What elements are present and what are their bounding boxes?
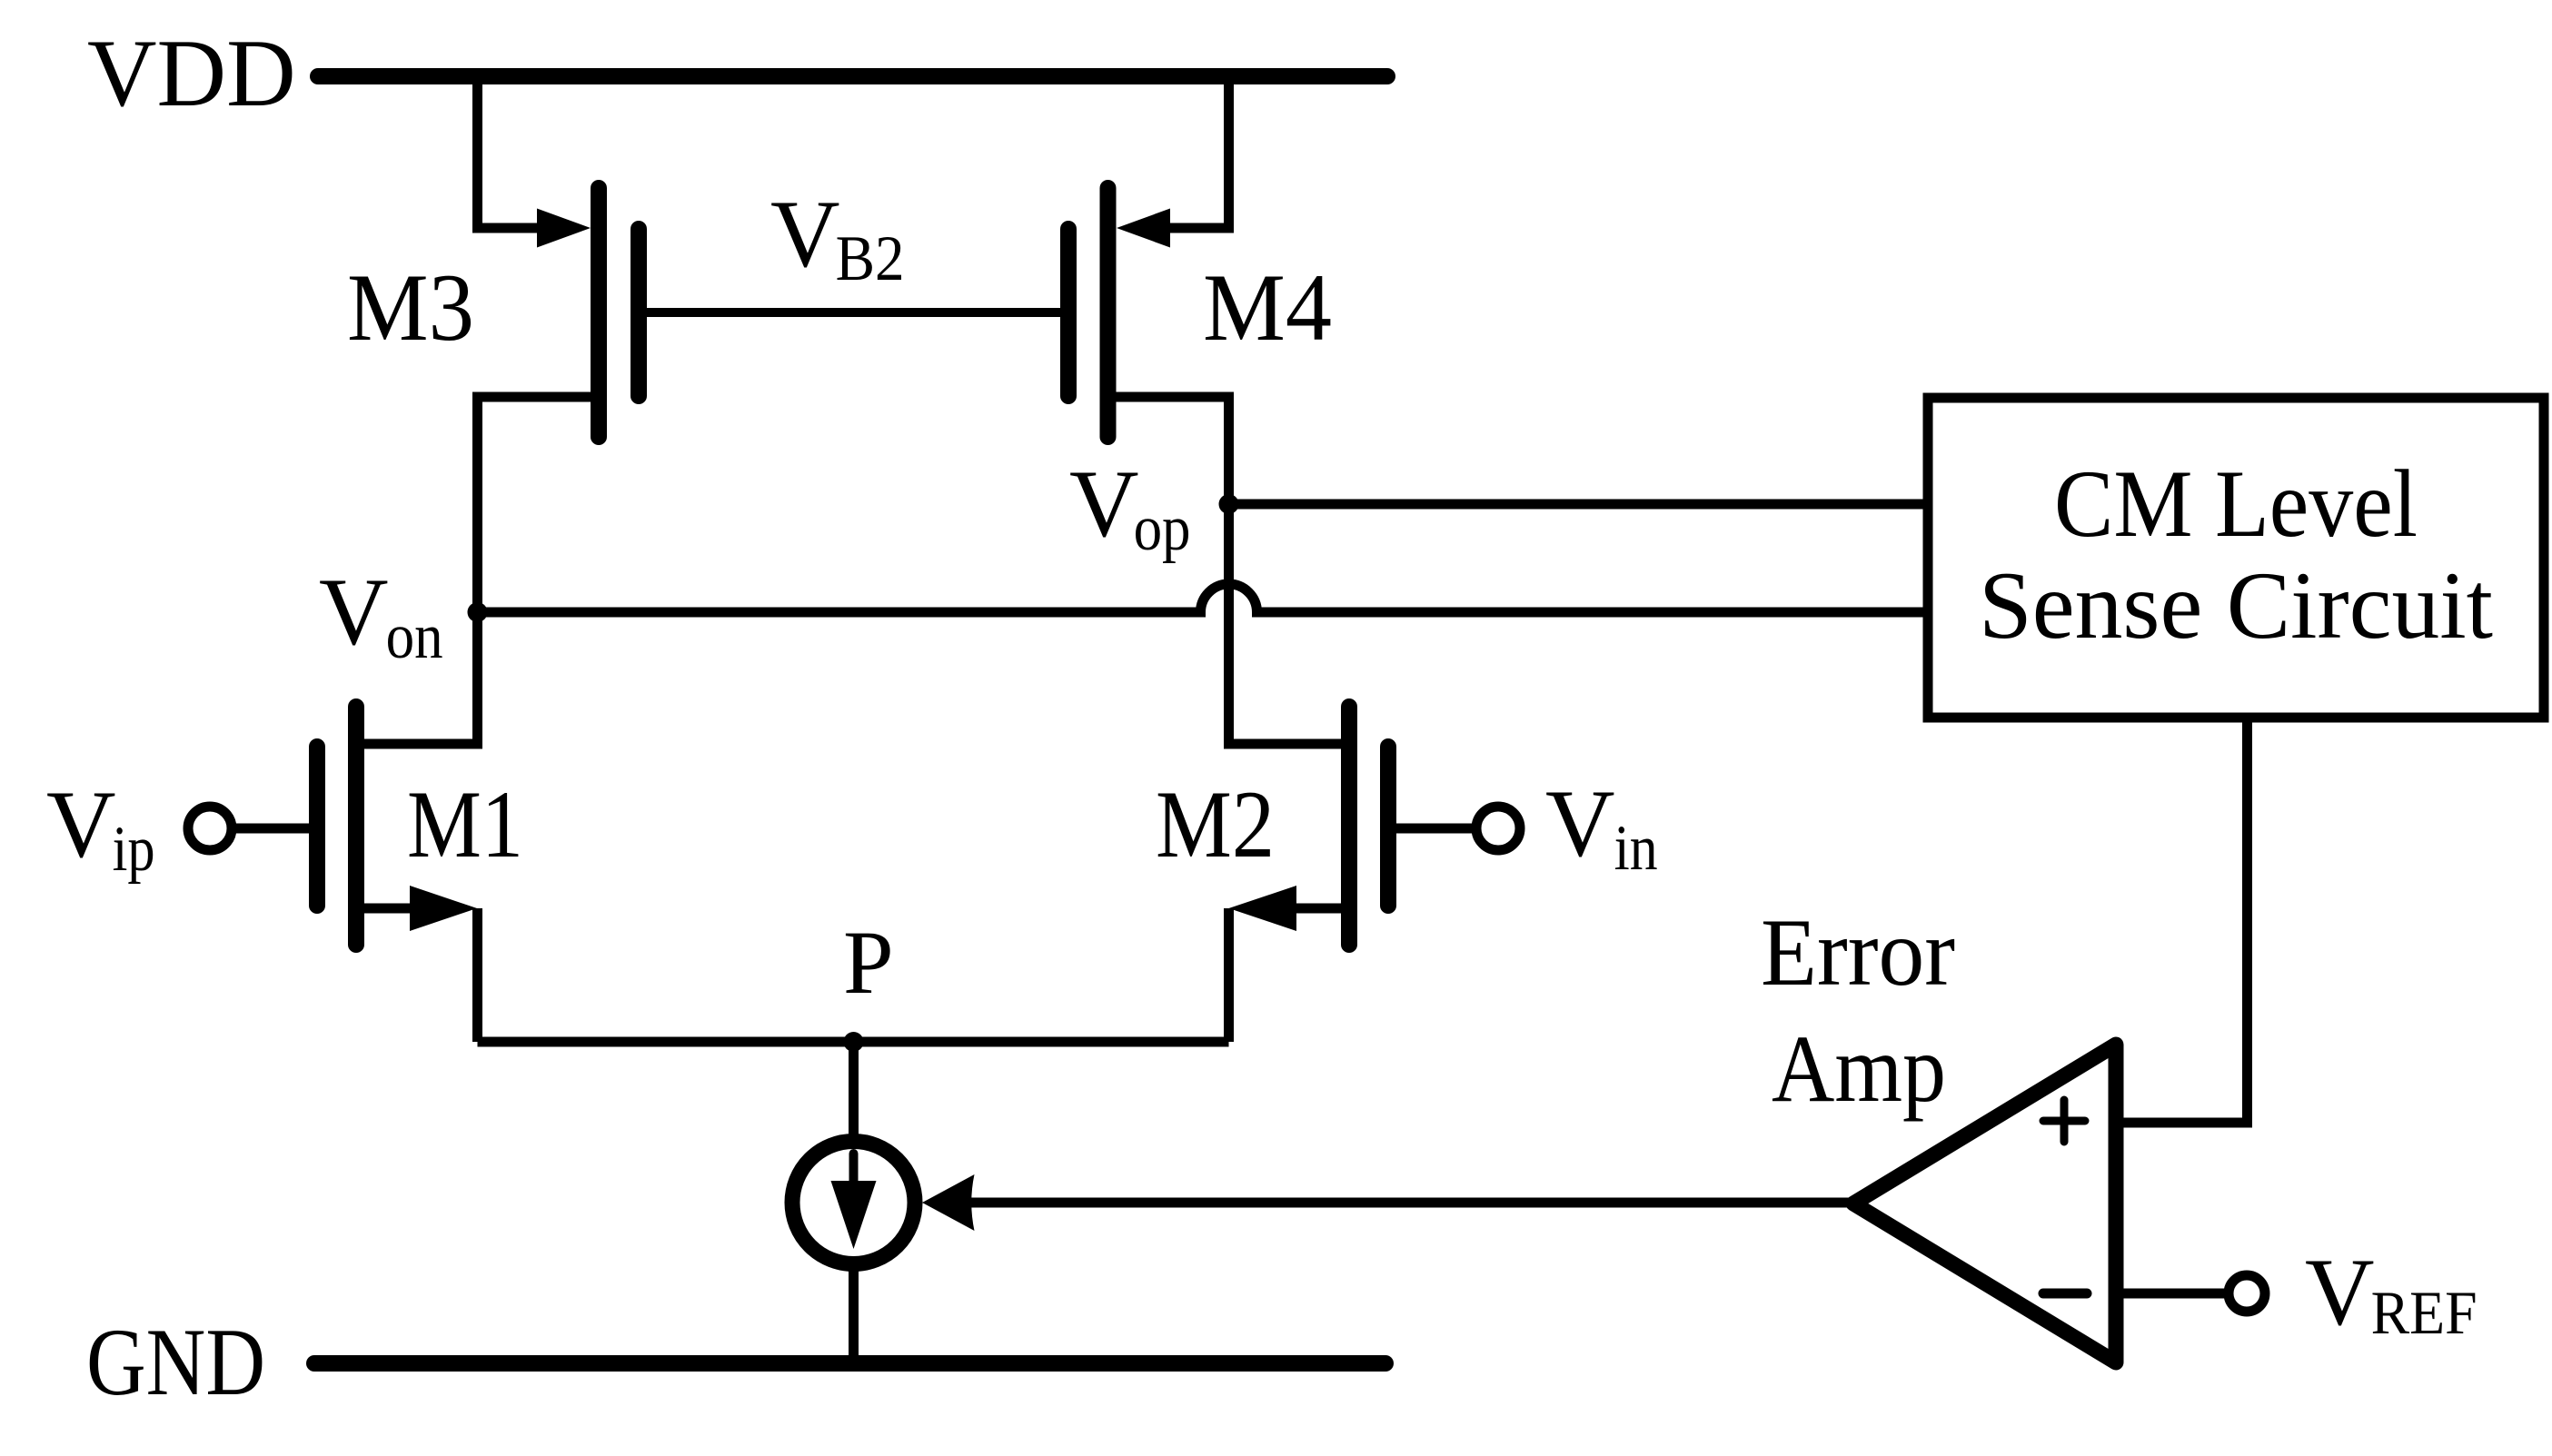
wire P to current source [849, 1042, 859, 1143]
wire Vip to M1 gate [236, 824, 309, 834]
wire Vop to CM sense [1229, 500, 1929, 510]
transistor M2 gate bar [1380, 747, 1396, 906]
terminal Vin [1476, 807, 1520, 850]
wire Von to CM sense (with hop) [478, 584, 1929, 612]
node P [844, 1032, 864, 1052]
GND rail [314, 1355, 1385, 1372]
wire error amp output to current source [961, 1198, 1853, 1208]
transistor M2 channel bar [1341, 707, 1357, 945]
svg-text:GND: GND [86, 1309, 265, 1415]
M1 source arrow [410, 886, 477, 931]
svg-text:P: P [843, 912, 894, 1013]
M1 source wire [364, 904, 416, 914]
op-amp error amp triangle [1853, 1045, 2116, 1362]
wire Vin to M2 gate [1396, 824, 1472, 834]
terminal Vip [188, 807, 232, 850]
svg-text:VDD: VDD [87, 20, 296, 126]
current source arrow head [831, 1181, 877, 1249]
svg-text:M1: M1 [407, 771, 523, 877]
transistor M3 channel bar [591, 188, 607, 437]
svg-text:Error: Error [1761, 899, 1955, 1005]
M2 source wire [1290, 904, 1341, 914]
wire M3 drain to Von to M1 drain [364, 397, 591, 744]
wire M1 source down to P rail [472, 908, 482, 1042]
wire VB2 gate line M3-M4 [647, 308, 1060, 317]
wire M4 drain to Vop to M2 drain [1117, 397, 1342, 744]
CM Level Sense Circuit box [1928, 398, 2544, 718]
wire CM sense output down to error amp + input [2116, 718, 2248, 1123]
wire current source to GND [849, 1263, 859, 1363]
wire VDD to M3 source [478, 76, 542, 228]
error amp minus sign [2043, 1289, 2087, 1299]
M3 source arrow [537, 209, 591, 248]
transistor M1 channel bar [348, 707, 364, 945]
transistor M4 channel bar [1100, 188, 1117, 437]
svg-text:Sense Circuit: Sense Circuit [1979, 552, 2493, 659]
terminal VREF [2229, 1275, 2265, 1312]
wire VDD to M4 source [1166, 76, 1229, 228]
svg-text:M4: M4 [1203, 254, 1332, 361]
node Vop [1219, 494, 1239, 514]
node Von [468, 602, 488, 622]
svg-text:M2: M2 [1156, 771, 1275, 877]
wire P rail [478, 1037, 1229, 1047]
transistor M3 gate bar [631, 229, 647, 396]
error amp output arrow [922, 1174, 975, 1231]
current source arrow stem [849, 1154, 859, 1192]
M2 source arrow [1229, 886, 1297, 931]
wire error amp - input to VREF [2116, 1289, 2224, 1299]
M4 source arrow [1117, 209, 1170, 248]
transistor M4 gate bar [1060, 229, 1077, 396]
VDD rail [318, 68, 1387, 84]
wire M2 source down to P rail [1224, 908, 1234, 1042]
current source circle [792, 1142, 915, 1264]
svg-text:CM Level: CM Level [2054, 451, 2418, 557]
error amp plus sign [2043, 1100, 2085, 1142]
transistor M1 gate bar [309, 747, 325, 906]
svg-text:M3: M3 [347, 254, 474, 361]
svg-text:Amp: Amp [1772, 1015, 1946, 1122]
